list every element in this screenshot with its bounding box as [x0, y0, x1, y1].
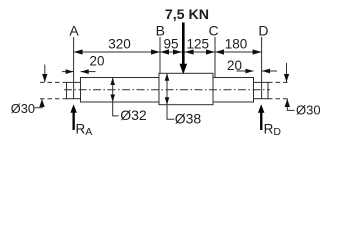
reaction arrow RA [70, 104, 76, 130]
Ø32 leader [113, 102, 119, 116]
extension line B [159, 37, 161, 73]
dim 20 left arrowheads [66, 69, 74, 74]
dimension line A-D [74, 51, 262, 53]
svg-text:Ø30: Ø30 [296, 103, 321, 118]
extension line C [214, 37, 216, 78]
svg-text:20: 20 [90, 54, 105, 69]
shaft left journal stub (Ø30) [67, 82, 81, 98]
Ø30 left leader [35, 99, 43, 108]
svg-text:95: 95 [163, 36, 178, 51]
Ø30 right down arrowhead [284, 74, 289, 82]
Ø30 right upper arrow shaft [286, 63, 288, 82]
svg-text:C: C [208, 23, 218, 39]
extension line A [73, 37, 75, 99]
svg-text:7,5 KN: 7,5 KN [165, 7, 209, 23]
Ø32 arrowheads [110, 78, 115, 86]
arrowhead at D pointing right [253, 49, 262, 54]
svg-text:Ø38: Ø38 [175, 110, 202, 126]
dim 20 left: arrow lines [62, 71, 74, 73]
arrowheads at C [206, 49, 215, 54]
Ø30 right projection dashed lines [268, 81, 290, 83]
reaction arrow RD [258, 104, 264, 130]
Ø30 right leader [287, 99, 294, 110]
svg-text:20: 20 [227, 58, 242, 73]
centerline (dash-dot axis) [64, 89, 270, 91]
svg-text:125: 125 [187, 36, 210, 51]
Ø30 left upper arrow shaft [44, 65, 46, 83]
svg-text:D: D [258, 23, 268, 39]
Ø30 left down arrowhead [42, 74, 47, 82]
dim 20 right: arrow lines [237, 70, 254, 72]
svg-text:320: 320 [108, 36, 131, 51]
svg-text:Ø30: Ø30 [11, 101, 35, 116]
shaft right journal stub (Ø30) [254, 82, 269, 98]
Ø38 arrowheads [165, 73, 170, 81]
extension line D [261, 37, 263, 99]
arrowheads at B [151, 49, 160, 54]
Ø38 diameter arrow line [166, 73, 168, 104]
arrowheads at force line on dim line [173, 49, 182, 54]
arrowhead at A pointing left [74, 49, 83, 54]
dim 20 right arrowheads [246, 69, 254, 74]
Ø32 diameter arrow line [112, 78, 114, 103]
Ø30 right up arrowhead [285, 99, 290, 107]
Ø38 leader [167, 105, 174, 120]
shaft section Ø32 left [81, 78, 160, 103]
shaft hub section Ø38 [159, 73, 213, 104]
svg-text:Ø32: Ø32 [120, 107, 147, 123]
svg-text:A: A [69, 23, 79, 39]
shaft section Ø32 right [213, 78, 254, 103]
Ø30 left up arrowhead [39, 99, 44, 107]
Ø30 left projection dashed lines [40, 81, 67, 83]
force arrow 7,5 KN [180, 23, 188, 75]
svg-text:180: 180 [225, 36, 248, 51]
